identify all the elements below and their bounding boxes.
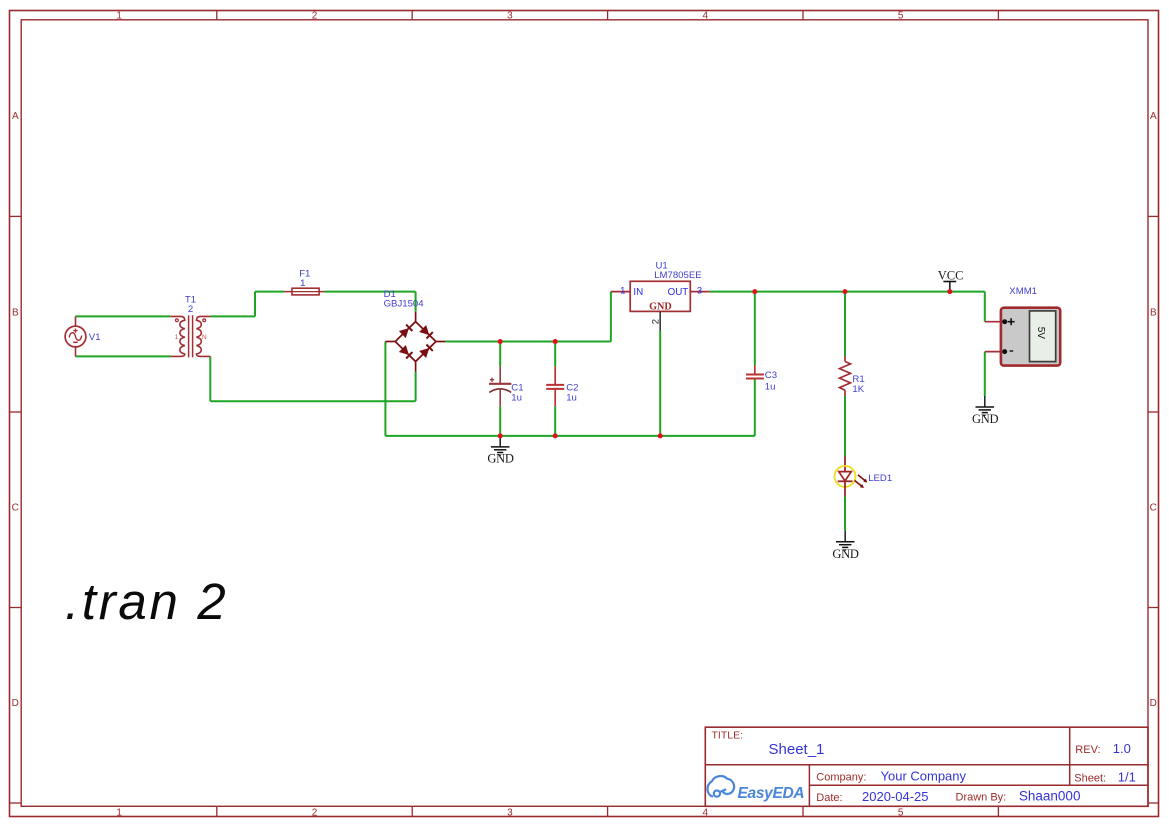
svg-text:Date:: Date: (816, 792, 842, 804)
svg-text:3: 3 (697, 285, 702, 296)
svg-text:Drawn By:: Drawn By: (956, 792, 1007, 804)
svg-text:1: 1 (116, 807, 122, 818)
svg-text:EasyEDA: EasyEDA (738, 785, 805, 802)
svg-text:Company:: Company: (816, 771, 866, 783)
svg-text:GND: GND (487, 451, 513, 465)
svg-text:1u: 1u (765, 382, 776, 393)
svg-text:A: A (12, 111, 19, 122)
svg-text:5: 5 (898, 10, 904, 21)
svg-text:1: 1 (175, 334, 179, 341)
svg-text:A: A (1150, 111, 1157, 122)
svg-text:1: 1 (300, 278, 305, 289)
svg-text:5V: 5V (1035, 327, 1046, 340)
svg-text:.tran 2: .tran 2 (65, 573, 228, 630)
svg-text:C3: C3 (765, 370, 777, 381)
svg-text:C: C (1150, 502, 1157, 513)
svg-text:1: 1 (116, 10, 122, 21)
svg-text:4: 4 (703, 10, 709, 21)
svg-text:2: 2 (312, 807, 318, 818)
svg-text:Sheet:: Sheet: (1074, 773, 1106, 785)
svg-text:XMM1: XMM1 (1009, 286, 1037, 297)
svg-text:D: D (12, 698, 19, 709)
svg-text:TITLE:: TITLE: (712, 730, 744, 742)
svg-text:2: 2 (188, 304, 193, 315)
svg-text:3: 3 (507, 807, 513, 818)
svg-text:B: B (1150, 307, 1157, 318)
svg-text:1u: 1u (566, 393, 577, 404)
svg-text:OUT: OUT (668, 287, 689, 298)
svg-text:1K: 1K (852, 384, 864, 395)
svg-text:Shaan000: Shaan000 (1019, 789, 1081, 804)
svg-text:1/1: 1/1 (1118, 770, 1136, 785)
svg-text:LED1: LED1 (868, 473, 892, 484)
svg-text:LM7805EE: LM7805EE (654, 270, 701, 281)
svg-text:1.0: 1.0 (1113, 741, 1131, 756)
svg-text:4: 4 (703, 807, 709, 818)
svg-text:B: B (12, 307, 19, 318)
svg-text:D: D (1150, 698, 1157, 709)
svg-text:VCC: VCC (938, 268, 964, 282)
svg-text:1u: 1u (511, 393, 522, 404)
svg-text:N: N (202, 334, 207, 341)
svg-text:3: 3 (507, 10, 513, 21)
svg-text:2020-04-25: 2020-04-25 (862, 789, 929, 804)
svg-text:GND: GND (832, 547, 858, 561)
svg-text:1: 1 (620, 285, 625, 296)
svg-text:Your Company: Your Company (881, 769, 967, 784)
svg-text:IN: IN (633, 287, 643, 298)
svg-text:GBJ1504: GBJ1504 (384, 299, 425, 310)
svg-text:REV:: REV: (1075, 744, 1100, 756)
svg-text:2: 2 (651, 319, 662, 324)
svg-text:GND: GND (649, 301, 672, 312)
svg-text:Sheet_1: Sheet_1 (769, 741, 825, 758)
svg-text:V1: V1 (89, 332, 101, 343)
svg-text:GND: GND (972, 412, 998, 426)
svg-text:2: 2 (312, 10, 318, 21)
svg-text:C: C (12, 502, 19, 513)
svg-text:5: 5 (898, 807, 904, 818)
